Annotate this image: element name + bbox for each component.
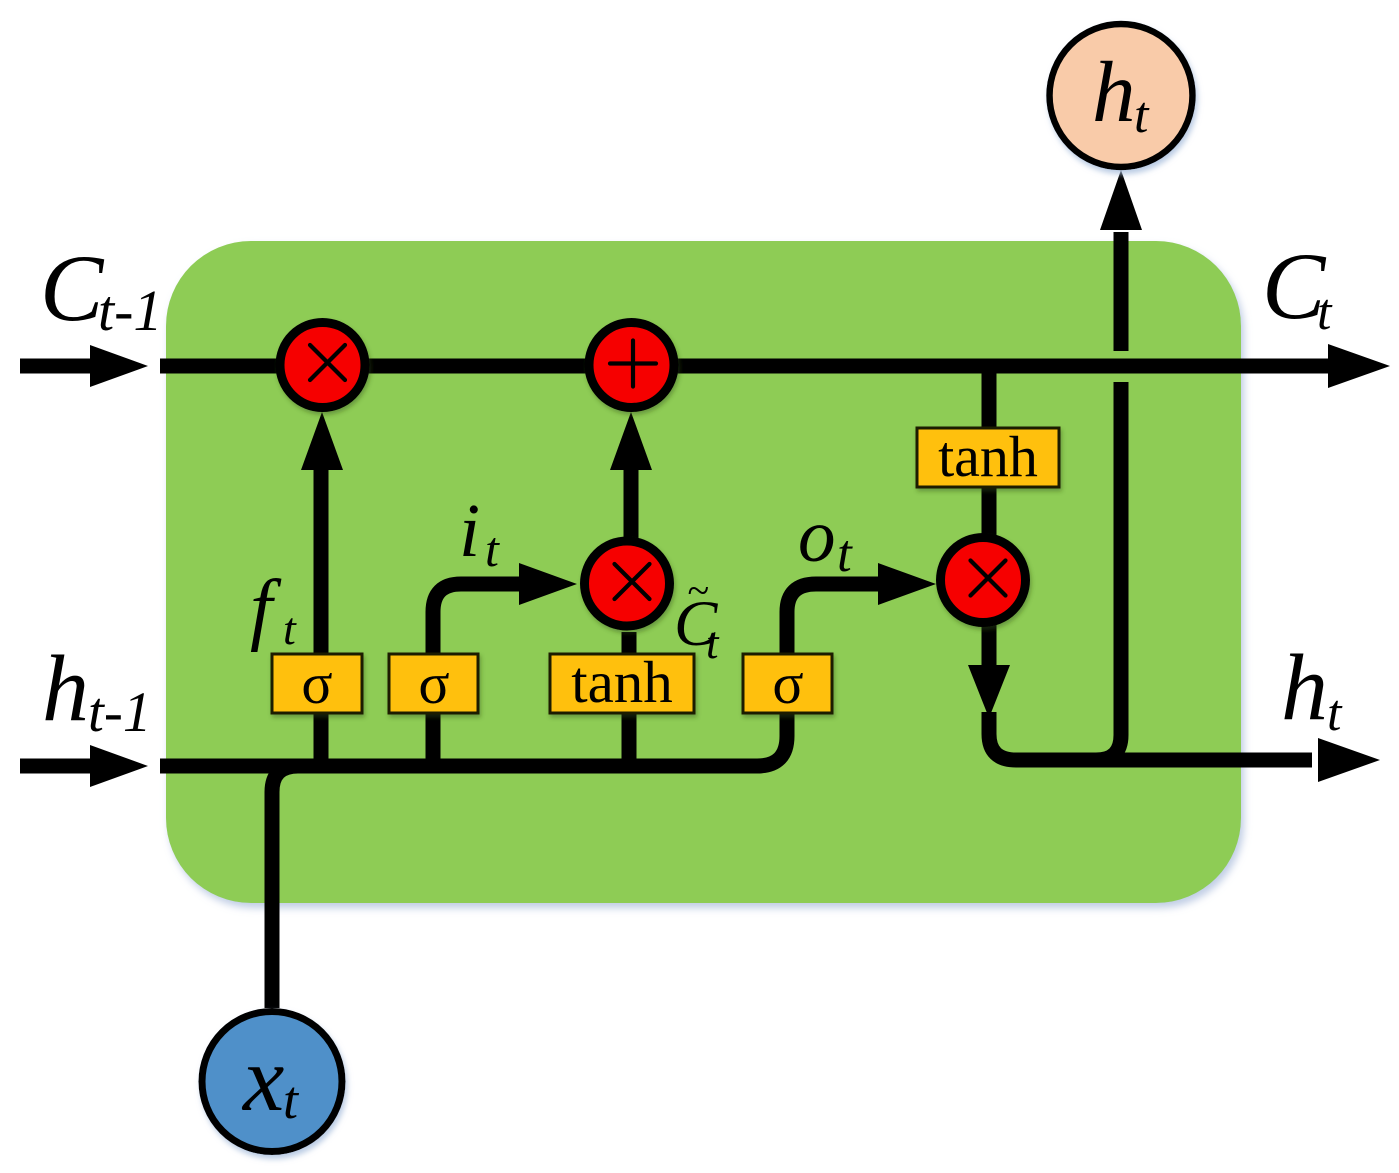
wire: candidate riser into add node bbox=[610, 412, 652, 539]
label h_t (right) bbox=[1281, 636, 1343, 742]
wire: input gate bend i bbox=[433, 563, 577, 766]
svg-text:~: ~ bbox=[687, 568, 709, 613]
wire: output down arrow from multiply node 3 bbox=[968, 620, 1380, 782]
svg-text:tanh: tanh bbox=[571, 649, 673, 715]
svg-text:h: h bbox=[1281, 636, 1328, 740]
svg-text:t: t bbox=[283, 603, 297, 654]
label f_t bbox=[250, 565, 297, 654]
svg-text:t: t bbox=[485, 521, 500, 577]
multiply node 3 (output) bbox=[941, 538, 1026, 623]
sigma box 3 (output gate) bbox=[743, 651, 832, 716]
svg-text:tanh: tanh bbox=[938, 424, 1038, 489]
svg-text:C: C bbox=[40, 235, 105, 341]
LSTM cell body bbox=[166, 241, 1241, 903]
svg-text:h: h bbox=[42, 637, 89, 741]
svg-text:σ: σ bbox=[772, 651, 803, 716]
label C_{t-1} bbox=[40, 235, 162, 343]
label C_t bbox=[1262, 233, 1333, 341]
svg-text:t: t bbox=[706, 618, 720, 668]
wire: h_t branch up (lower segment) bbox=[1096, 382, 1121, 760]
svg-text:t: t bbox=[1317, 284, 1333, 341]
svg-text:t-1: t-1 bbox=[88, 681, 151, 744]
svg-text:t: t bbox=[1134, 87, 1150, 144]
multiply node 1 (forget) bbox=[280, 323, 365, 408]
label h_{t-1} bbox=[42, 637, 151, 744]
svg-text:t: t bbox=[837, 525, 853, 583]
svg-text:t: t bbox=[1327, 685, 1343, 742]
label i_t bbox=[459, 489, 500, 577]
tanh box 1 (candidate) bbox=[550, 649, 694, 715]
sigma box 2 (input gate) bbox=[389, 651, 478, 716]
wire: C input arrow (left of cell) bbox=[20, 345, 148, 387]
wire: x input riser bbox=[272, 766, 298, 1008]
wire: h input arrow (left of cell) bbox=[20, 745, 148, 787]
wire: h_t branch up (upper segment with arrow) bbox=[1100, 170, 1142, 351]
hidden state node h_t (top) bbox=[1050, 24, 1193, 167]
svg-text:x: x bbox=[241, 1028, 284, 1131]
input node x_t (bottom) bbox=[202, 1012, 342, 1152]
wire: tanh branch from C line bbox=[982, 366, 997, 542]
svg-text:t: t bbox=[283, 1070, 300, 1130]
svg-text:σ: σ bbox=[301, 651, 332, 716]
wire: h input line with output-gate bend bbox=[160, 584, 880, 766]
add node (cell state update) bbox=[589, 323, 674, 408]
wire: tanh riser below multiply node 2 bbox=[622, 632, 637, 766]
sigma box 1 (forget gate) bbox=[272, 651, 362, 716]
svg-text:σ: σ bbox=[418, 651, 449, 716]
svg-text:i: i bbox=[459, 489, 480, 573]
tanh box 2 (output path) bbox=[917, 424, 1059, 489]
svg-text:o: o bbox=[798, 495, 836, 578]
svg-text:t-1: t-1 bbox=[98, 278, 162, 343]
label C~_t (candidate) bbox=[674, 568, 720, 668]
multiply node 2 (input x candidate) bbox=[585, 541, 670, 626]
wire: forget gate riser f bbox=[301, 412, 343, 766]
label o_t bbox=[798, 495, 853, 583]
wire: C line (cell state) bbox=[160, 344, 1390, 388]
svg-text:h: h bbox=[1092, 43, 1136, 140]
